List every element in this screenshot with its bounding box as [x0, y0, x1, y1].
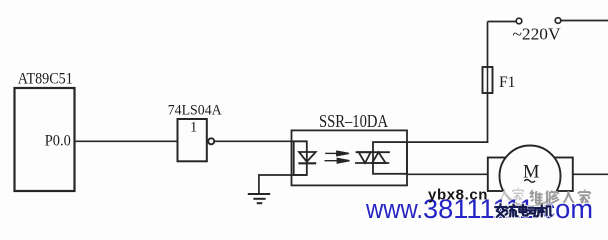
terminal left — [516, 18, 522, 24]
wire triac bottom to motor — [407, 173, 488, 175]
SSR module U3 SSR-10DA outer box — [292, 130, 408, 185]
svg-text:74LS04A: 74LS04A — [168, 103, 222, 119]
optocoupler light arrows — [325, 151, 350, 163]
wire P0.0 to inverter input — [75, 140, 178, 142]
triac Q1 — [355, 152, 390, 163]
svg-text:P0.0: P0.0 — [45, 132, 71, 149]
triac output box — [373, 142, 407, 174]
svg-text:~220V: ~220V — [513, 24, 561, 43]
IC U1 AT89C51 — [15, 88, 75, 191]
svg-text:SSR–10DA: SSR–10DA — [319, 111, 388, 131]
wire to AC terminal left — [488, 21, 517, 23]
svg-text:1: 1 — [190, 119, 197, 135]
wire triac top to fuse — [407, 141, 488, 143]
LED input box — [294, 141, 307, 175]
svg-text:ybx8.cn: ybx8.cn — [428, 187, 488, 204]
fuse F1 — [483, 67, 493, 93]
svg-text:AT89C51: AT89C51 — [18, 70, 73, 87]
terminal right — [555, 18, 561, 24]
watermark overlay — [500, 188, 523, 201]
inverter U2 74LS04A gate 1 — [178, 119, 215, 161]
LED D1 — [298, 152, 316, 163]
wire motor to AC return — [573, 173, 608, 175]
svg-text:F1: F1 — [499, 74, 516, 91]
wire fuse vertical — [487, 22, 489, 143]
motor M1 — [500, 146, 561, 207]
ground — [248, 194, 270, 203]
svg-text:www.: www. — [365, 194, 423, 224]
wire inverter output to SSR input — [215, 140, 307, 142]
wire SSR input return to ground — [259, 175, 307, 194]
motor terminal box — [488, 158, 573, 192]
wire AC terminal right — [561, 20, 608, 22]
